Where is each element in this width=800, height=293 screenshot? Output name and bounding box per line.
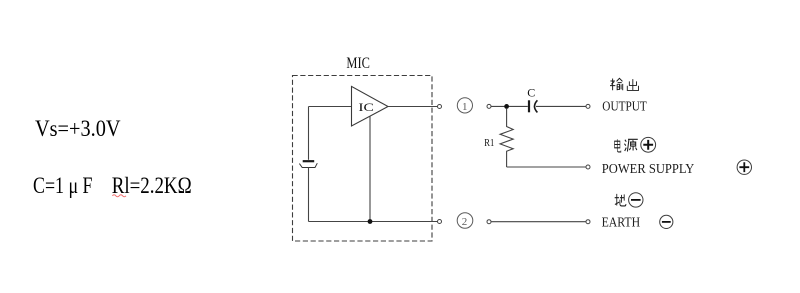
- svg-text:2: 2: [462, 216, 468, 228]
- wire row2 earth: [491, 221, 586, 223]
- chinese label yuan (power 2nd char): [624, 139, 637, 151]
- label OUTPUT: [602, 99, 647, 114]
- svg-text:R1: R1: [484, 137, 494, 149]
- wire IC output: [388, 106, 437, 108]
- svg-text:IC: IC: [358, 100, 373, 114]
- label C=1uF: [33, 173, 93, 198]
- chinese label chu (output 2nd char): [627, 79, 638, 90]
- wire R1 to power terminal: [507, 166, 586, 168]
- junction node dot row1: [504, 104, 509, 109]
- label POWER SUPPLY: [602, 162, 695, 177]
- junction dot inside MIC: [368, 219, 373, 224]
- mic capsule element: [299, 161, 317, 167]
- terminal pin 2 circle: [438, 220, 442, 224]
- svg-text:MIC: MIC: [346, 55, 370, 72]
- label MIC: [346, 55, 370, 72]
- wire bottom horizontal: [309, 221, 438, 223]
- terminal circle OUTPUT: [586, 104, 590, 108]
- MIC dashed enclosure box: [293, 76, 433, 242]
- resistor R1: [484, 109, 513, 167]
- wire row1 to capacitor: [491, 105, 528, 107]
- label Vs=+3.0V: [35, 116, 121, 141]
- minus-in-circle after di: [629, 193, 643, 207]
- node 1 circled: [457, 98, 472, 113]
- chinese label shu (output 1st char): [610, 78, 623, 90]
- svg-text:EARTH: EARTH: [602, 215, 641, 230]
- plus-in-circle far right: [737, 160, 751, 174]
- chinese label dian (power 1st char): [615, 139, 621, 152]
- op-amp IC triangle: [352, 86, 389, 126]
- svg-text:C: C: [527, 85, 535, 99]
- chinese label di (earth): [615, 194, 626, 206]
- svg-text:C=1 μ F: C=1 μ F: [33, 173, 93, 198]
- wire input horizontal to IC: [309, 106, 352, 108]
- wire left vertical lower: [308, 168, 310, 222]
- terminal pin 1 circle: [438, 105, 442, 109]
- svg-text:Rl=2.2KΩ: Rl=2.2KΩ: [112, 173, 192, 198]
- minus-in-circle after EARTH: [660, 215, 673, 228]
- wire IC ground vertical: [369, 116, 371, 221]
- terminal circle EARTH: [586, 220, 590, 224]
- svg-text:OUTPUT: OUTPUT: [602, 99, 647, 114]
- node 2 circled: [457, 213, 473, 229]
- svg-text:Vs=+3.0V: Vs=+3.0V: [35, 116, 121, 141]
- terminal circle POWER: [586, 165, 590, 169]
- terminal circle row1 left: [487, 104, 491, 108]
- label EARTH: [602, 215, 641, 230]
- wire left vertical upper: [308, 107, 310, 160]
- svg-text:1: 1: [462, 101, 468, 113]
- terminal circle row2 left: [487, 220, 491, 224]
- label Rl=2.2Kohm: [112, 173, 192, 198]
- svg-text:POWER SUPPLY: POWER SUPPLY: [602, 162, 695, 177]
- capacitor C: [527, 85, 537, 112]
- wire capacitor to output terminal: [536, 105, 586, 107]
- spellcheck squiggle under Rl: [112, 195, 126, 197]
- plus-in-circle after dianyuan: [641, 137, 656, 152]
